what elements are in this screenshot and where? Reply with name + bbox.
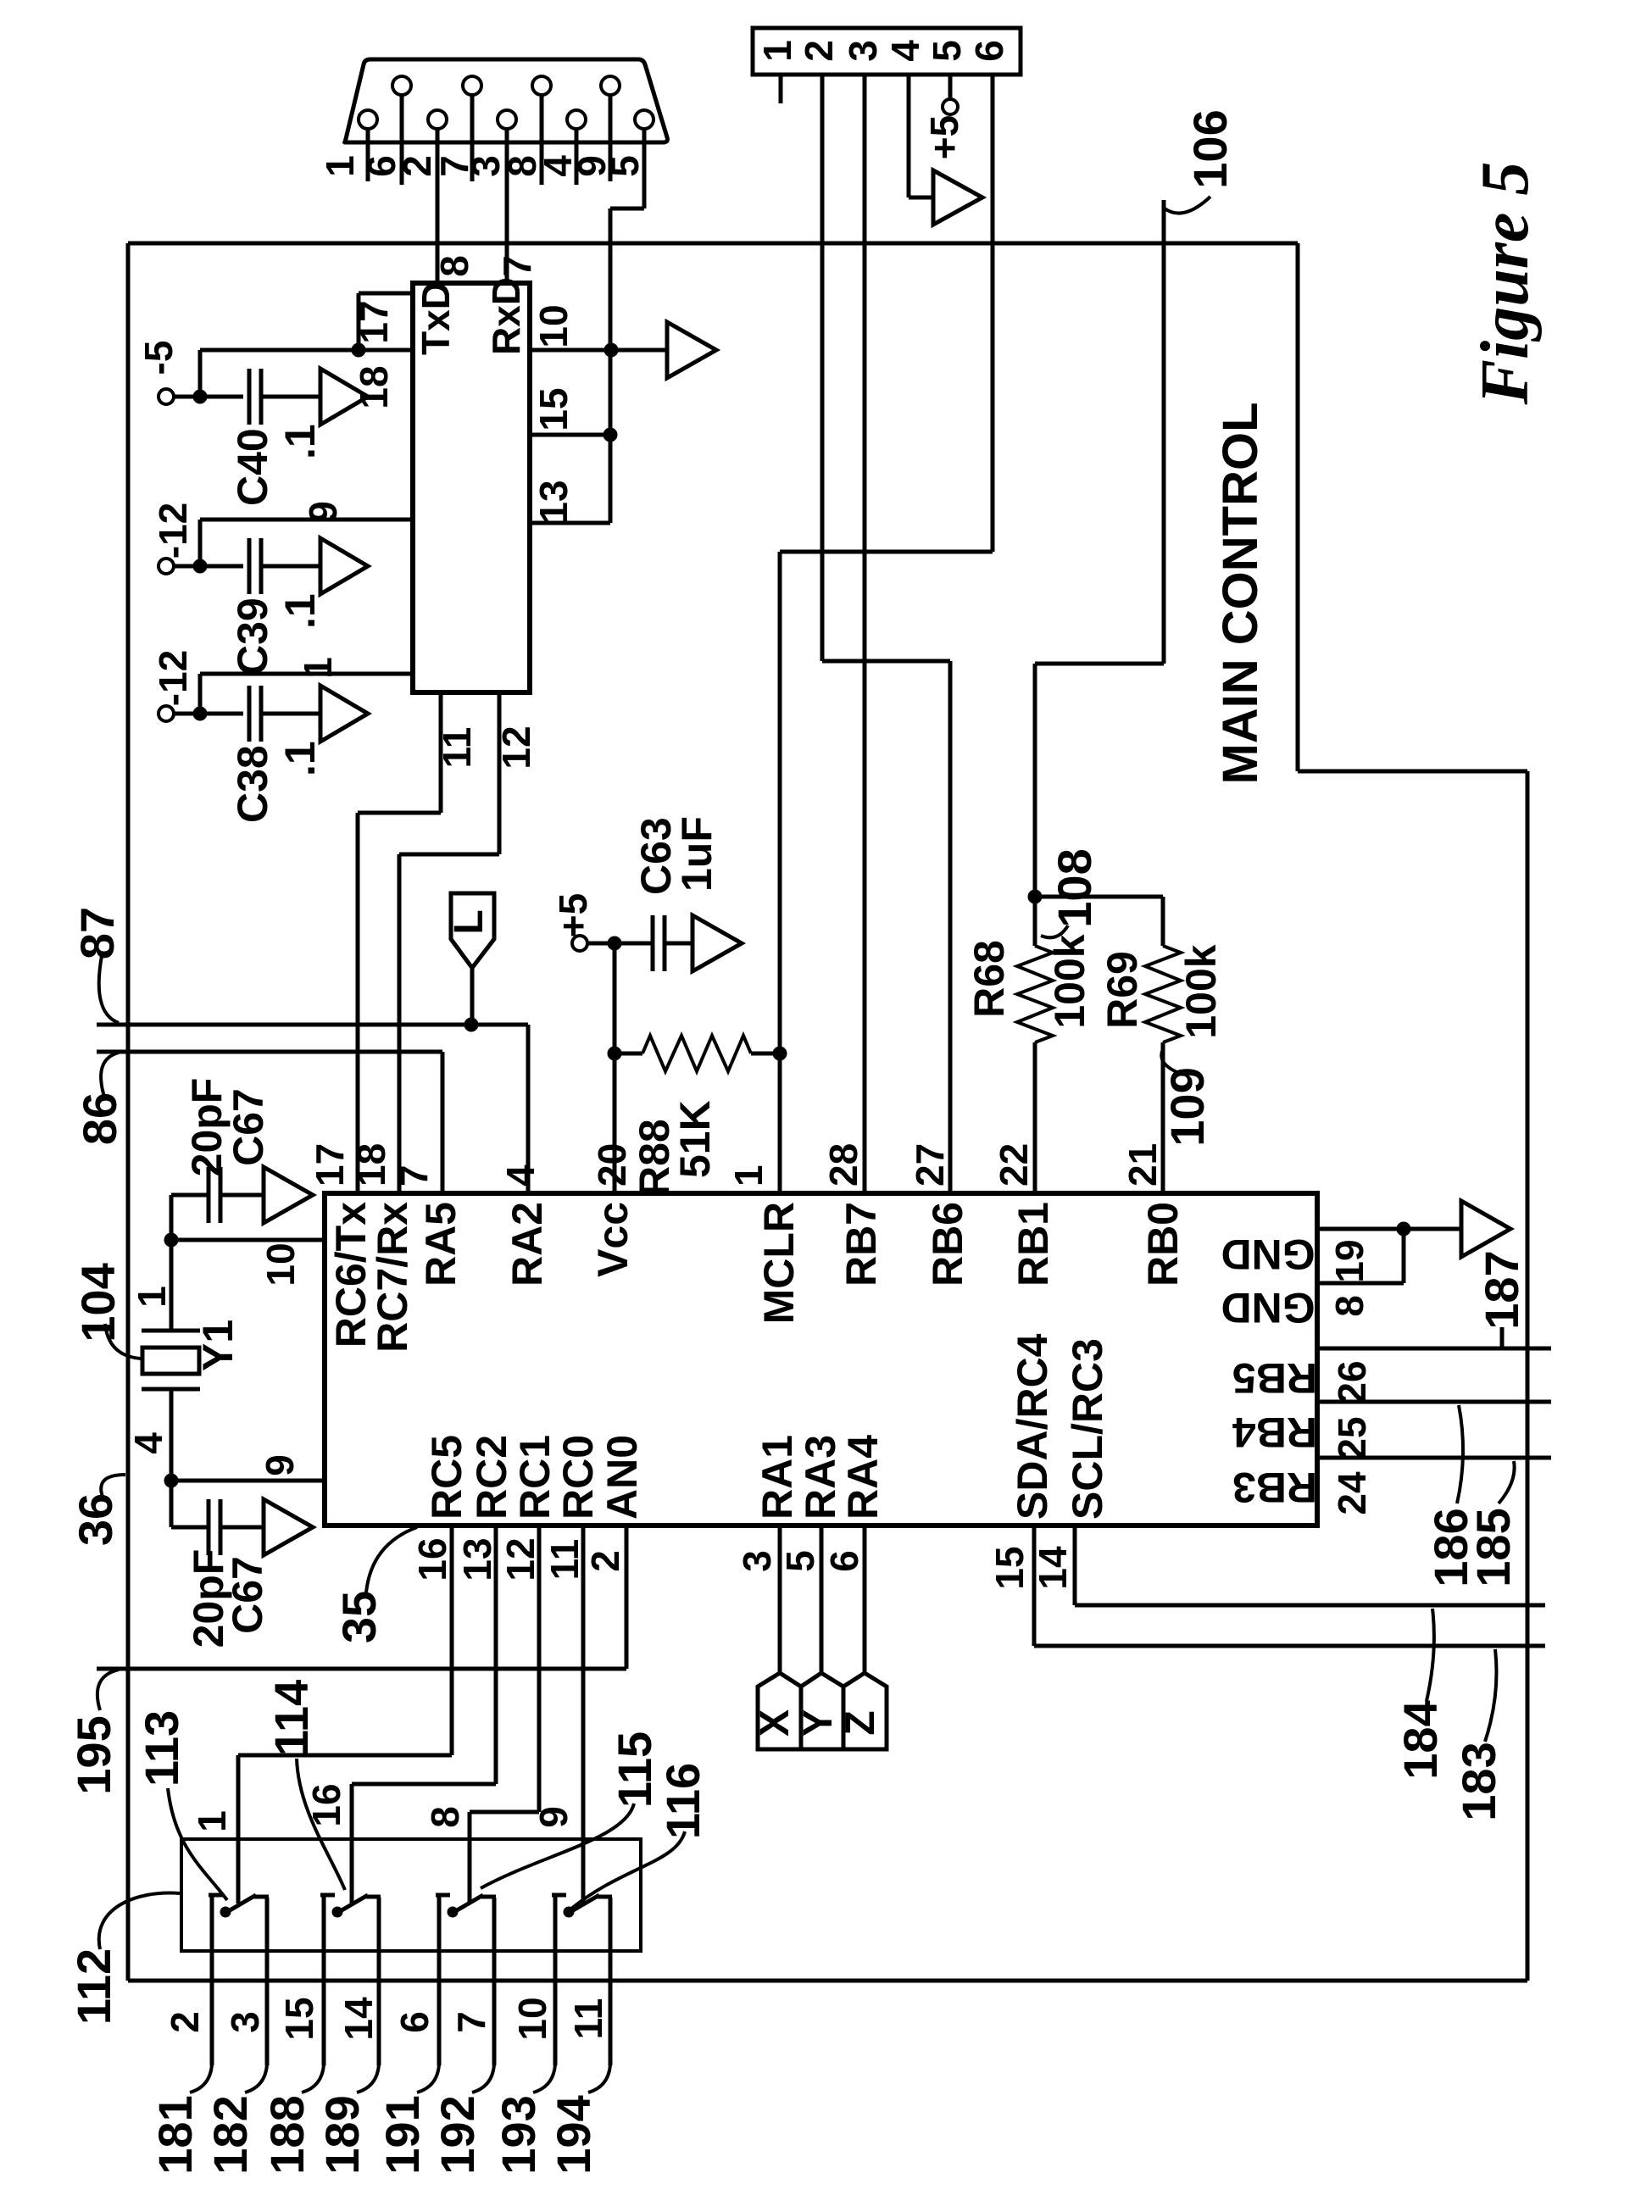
wire RC0 pin11 to SW4 bbox=[581, 1526, 586, 1904]
svg-text:Figure 5: Figure 5 bbox=[1468, 162, 1543, 406]
svg-text:15: 15 bbox=[277, 1997, 321, 2040]
svg-text:14: 14 bbox=[1031, 1546, 1075, 1590]
svg-text:14: 14 bbox=[337, 1997, 381, 2041]
svg-text:35: 35 bbox=[332, 1591, 386, 1643]
ground triangle U1 bbox=[1461, 1201, 1510, 1257]
ground triangle C40 bbox=[320, 369, 368, 425]
resistor R68 bbox=[1017, 946, 1053, 1042]
leader 106 bbox=[1165, 197, 1210, 214]
wire SDA pin15 net 183 bbox=[1032, 1526, 1037, 1646]
svg-text:RB5: RB5 bbox=[1232, 1354, 1317, 1402]
wire P1 pin3 to U2 RxD pin7 bbox=[505, 129, 509, 283]
svg-text:5: 5 bbox=[925, 40, 969, 62]
svg-text:1: 1 bbox=[190, 1810, 234, 1832]
svg-text:.1: .1 bbox=[276, 593, 324, 629]
svg-text:13: 13 bbox=[455, 1537, 499, 1581]
svg-text:MCLR: MCLR bbox=[755, 1202, 803, 1324]
wire P2 pin3 to RB7 bbox=[863, 75, 867, 1193]
wire node 87 to RA2 bbox=[97, 1023, 528, 1027]
svg-text:51K: 51K bbox=[671, 1100, 719, 1178]
leader 184 bbox=[1427, 1609, 1434, 1701]
switch S2 bbox=[320, 1893, 335, 1898]
svg-text:1: 1 bbox=[726, 1164, 770, 1187]
svg-text:181: 181 bbox=[148, 2095, 202, 2174]
svg-text:26: 26 bbox=[1330, 1360, 1374, 1403]
svg-text:6: 6 bbox=[822, 1550, 866, 1572]
svg-text:184: 184 bbox=[1393, 1700, 1447, 1779]
svg-text:RA1: RA1 bbox=[754, 1435, 801, 1520]
ground triangle C67 upper bbox=[264, 1167, 313, 1223]
junction dot GND bbox=[1397, 1222, 1410, 1236]
svg-text:RB0: RB0 bbox=[1139, 1202, 1187, 1287]
svg-text:1: 1 bbox=[755, 40, 799, 62]
svg-text:3: 3 bbox=[223, 2011, 267, 2033]
svg-text:7: 7 bbox=[392, 1164, 436, 1187]
svg-text:195: 195 bbox=[67, 1715, 120, 1794]
wire RB4 pin25 net 186 bbox=[1317, 1400, 1551, 1404]
wire P1 pin9 stub bbox=[609, 95, 613, 181]
wire P1 pin8 stub bbox=[540, 95, 544, 185]
svg-text:187: 187 bbox=[1475, 1250, 1528, 1329]
junction dot C38 node bbox=[193, 707, 207, 720]
MCU U1 box bbox=[325, 1193, 1317, 1526]
svg-text:9: 9 bbox=[301, 501, 345, 523]
leader 191 bbox=[417, 2065, 439, 2093]
wire AN0 pin2 net 195 bbox=[625, 1526, 629, 1669]
ground triangle C63 bbox=[693, 915, 742, 971]
capacitor C39 bbox=[248, 538, 252, 594]
leader 104 bbox=[105, 1324, 141, 1359]
svg-text:11: 11 bbox=[435, 727, 479, 769]
junction dot 108 bbox=[1028, 890, 1042, 903]
svg-text:100k: 100k bbox=[1177, 944, 1225, 1038]
svg-text:115: 115 bbox=[608, 1731, 661, 1808]
wire R69 to RB0 bbox=[1161, 1042, 1165, 1193]
capacitor C67 upper bbox=[170, 1195, 174, 1240]
svg-text:5: 5 bbox=[778, 1550, 822, 1572]
wire P1 pin1 stub bbox=[366, 129, 370, 181]
leader 183 bbox=[1485, 1649, 1497, 1742]
wire +5 node bbox=[587, 942, 652, 946]
svg-text:18: 18 bbox=[349, 1143, 393, 1187]
wire node 106 bbox=[1162, 200, 1166, 664]
svg-text:2: 2 bbox=[163, 2011, 207, 2033]
leader 194 bbox=[588, 2065, 610, 2093]
svg-text:RB1: RB1 bbox=[1010, 1202, 1057, 1287]
junction dot Vcc/R88 bbox=[608, 1047, 621, 1060]
svg-text:10: 10 bbox=[259, 1242, 303, 1286]
svg-text:RxD: RxD bbox=[484, 277, 528, 355]
svg-text:86: 86 bbox=[73, 1092, 126, 1145]
svg-text:6: 6 bbox=[967, 40, 1011, 62]
leader 35 bbox=[366, 1527, 417, 1592]
junction dot pin15 bbox=[604, 428, 617, 442]
junction dot crystal bottom bbox=[164, 1474, 178, 1487]
svg-text:1: 1 bbox=[318, 155, 362, 177]
svg-text:36: 36 bbox=[69, 1493, 122, 1546]
svg-text:106: 106 bbox=[1183, 109, 1237, 188]
wire GND pin8 bbox=[1317, 1281, 1404, 1286]
wire R68 to RB1 bbox=[1033, 1042, 1037, 1193]
junction dot R88/MCLR bbox=[773, 1047, 787, 1060]
wire RC2 pin13 to SW2 bbox=[494, 1526, 498, 1784]
svg-text:RC6/Tx: RC6/Tx bbox=[327, 1202, 375, 1348]
svg-text:7: 7 bbox=[449, 2011, 493, 2033]
connector P1 DB9 shell bbox=[345, 59, 668, 142]
svg-text:24: 24 bbox=[1330, 1471, 1374, 1515]
U2 pin1 stub bbox=[198, 674, 203, 714]
leader 189 bbox=[357, 2065, 379, 2093]
wire to R69 bbox=[1035, 895, 1163, 899]
svg-text:R68: R68 bbox=[965, 940, 1013, 1018]
svg-text:X: X bbox=[753, 1709, 798, 1737]
svg-text:RC7/Rx: RC7/Rx bbox=[369, 1202, 416, 1353]
svg-text:GND: GND bbox=[1221, 1284, 1315, 1331]
wire R68 top lead bbox=[1033, 897, 1037, 946]
svg-text:RA2: RA2 bbox=[503, 1202, 551, 1287]
wire RC5 pin16 to SW1 bbox=[450, 1526, 454, 1755]
svg-text:183: 183 bbox=[1452, 1742, 1505, 1820]
svg-text:10: 10 bbox=[531, 304, 576, 347]
svg-text:SDA/RC4: SDA/RC4 bbox=[1009, 1333, 1056, 1520]
svg-text:.1: .1 bbox=[276, 741, 324, 776]
svg-text:3: 3 bbox=[841, 40, 885, 62]
svg-text:12: 12 bbox=[494, 725, 538, 769]
leader 87 bbox=[99, 956, 119, 1023]
svg-text:194: 194 bbox=[547, 2095, 600, 2174]
svg-text:21: 21 bbox=[1121, 1143, 1165, 1187]
wire U2 pin15 bbox=[530, 433, 610, 437]
svg-text:9: 9 bbox=[531, 1806, 576, 1828]
svg-text:-12: -12 bbox=[151, 503, 195, 559]
svg-text:15: 15 bbox=[987, 1546, 1032, 1589]
svg-text:17: 17 bbox=[308, 1143, 352, 1187]
tag X bbox=[758, 1673, 801, 1749]
svg-text:L: L bbox=[447, 909, 492, 934]
svg-text:1uF: 1uF bbox=[673, 816, 720, 892]
svg-text:114: 114 bbox=[264, 1680, 318, 1756]
wire P1 pin2 to U2 TxD pin8 bbox=[436, 129, 440, 283]
svg-text:15: 15 bbox=[531, 387, 576, 431]
wire RA3 pin5 bbox=[820, 1526, 824, 1673]
connector P2 box bbox=[753, 28, 1021, 75]
svg-text:188: 188 bbox=[260, 2095, 314, 2174]
svg-text:2: 2 bbox=[797, 40, 841, 62]
leader 192 bbox=[472, 2065, 494, 2093]
svg-text:GND: GND bbox=[1221, 1231, 1315, 1278]
svg-text:RC2: RC2 bbox=[468, 1435, 515, 1520]
switch block 112 box bbox=[181, 1839, 641, 1951]
svg-text:RC5: RC5 bbox=[423, 1435, 470, 1520]
U2 pins 17 18 tie bbox=[359, 292, 413, 296]
svg-text:C67: C67 bbox=[224, 1556, 271, 1634]
wire RB3 pin24 net 185 bbox=[1317, 1456, 1551, 1460]
capacitor C40 bbox=[248, 369, 252, 425]
terminal -12 (C38) bbox=[159, 706, 174, 721]
junction dot crystal top bbox=[164, 1233, 178, 1247]
svg-text:8: 8 bbox=[423, 1806, 467, 1828]
wire RA4 pin6 bbox=[863, 1526, 867, 1673]
svg-text:RA5: RA5 bbox=[417, 1202, 464, 1287]
svg-text:100k: 100k bbox=[1046, 934, 1093, 1028]
wire SCL pin14 net 184 bbox=[1073, 1526, 1077, 1605]
connector P1 pin circles row upper bbox=[392, 76, 411, 95]
ground triangle C39 bbox=[320, 538, 368, 594]
svg-text:6: 6 bbox=[392, 2011, 437, 2033]
svg-text:RB7: RB7 bbox=[837, 1202, 885, 1287]
tag L bbox=[451, 893, 494, 968]
tag Y bbox=[801, 1673, 843, 1749]
svg-text:.1: .1 bbox=[276, 424, 324, 459]
svg-text:10: 10 bbox=[510, 1997, 554, 2040]
svg-text:+5: +5 bbox=[922, 115, 966, 159]
terminal -12 (C39) bbox=[159, 559, 174, 574]
svg-text:SCL/RC3: SCL/RC3 bbox=[1064, 1338, 1111, 1520]
leader 188 bbox=[302, 2065, 324, 2093]
wire C39 node bbox=[174, 564, 243, 569]
U1 pin10 stub bbox=[171, 1238, 325, 1242]
junction dot -5 node bbox=[193, 390, 207, 403]
leader 116 bbox=[571, 1831, 685, 1909]
svg-text:4: 4 bbox=[883, 40, 927, 62]
svg-text:193: 193 bbox=[492, 2095, 545, 2174]
svg-text:RA3: RA3 bbox=[797, 1435, 844, 1520]
svg-text:3: 3 bbox=[735, 1550, 779, 1572]
U1 pin9 stub bbox=[171, 1479, 325, 1483]
svg-text:RB6: RB6 bbox=[924, 1202, 971, 1287]
svg-text:17: 17 bbox=[352, 300, 396, 343]
wire U2 pin11 to RC6/Tx bbox=[439, 692, 443, 813]
capacitor C38 bbox=[248, 686, 252, 742]
power +5 terminal at P2 pin5 bbox=[948, 75, 953, 100]
svg-text:8: 8 bbox=[432, 255, 476, 277]
svg-text:13: 13 bbox=[531, 480, 576, 523]
svg-text:1: 1 bbox=[130, 1286, 174, 1308]
ground triangle C38 bbox=[320, 686, 368, 742]
wire P2 pin2 to RB6 bbox=[820, 75, 825, 661]
svg-text:-12: -12 bbox=[151, 650, 195, 706]
leader 112 bbox=[99, 1893, 180, 1949]
svg-text:27: 27 bbox=[908, 1143, 952, 1187]
leader 193 bbox=[533, 2065, 555, 2093]
wire P2 pin4 to ground bbox=[907, 75, 911, 197]
svg-text:12: 12 bbox=[498, 1537, 542, 1581]
svg-text:20pF: 20pF bbox=[183, 1078, 231, 1177]
svg-text:+5: +5 bbox=[551, 893, 595, 937]
svg-text:TxD: TxD bbox=[414, 281, 458, 355]
leader 36 bbox=[101, 1475, 125, 1497]
svg-text:16: 16 bbox=[410, 1537, 454, 1581]
svg-text:8: 8 bbox=[1327, 1295, 1371, 1317]
switch S4 bbox=[552, 1893, 566, 1898]
svg-text:28: 28 bbox=[821, 1143, 865, 1187]
svg-text:Z: Z bbox=[838, 1710, 883, 1735]
svg-text:104: 104 bbox=[71, 1263, 125, 1342]
wire RB5 pin26 net 187 bbox=[1317, 1347, 1551, 1351]
svg-text:25: 25 bbox=[1330, 1416, 1374, 1459]
svg-text:11: 11 bbox=[542, 1539, 587, 1581]
svg-text:109: 109 bbox=[1160, 1067, 1214, 1146]
leader 86 bbox=[101, 1053, 119, 1097]
svg-text:-5: -5 bbox=[136, 341, 181, 375]
svg-text:192: 192 bbox=[431, 2095, 484, 2174]
RS232 driver U2 box bbox=[413, 283, 530, 692]
crystal Y1 bbox=[170, 1240, 174, 1330]
leader 109 bbox=[1161, 1048, 1183, 1075]
wire P1 pin4 stub bbox=[575, 129, 579, 185]
wire U2 pin10 bbox=[530, 348, 667, 353]
ground triangle at P2 pin4 bbox=[933, 170, 982, 225]
svg-text:112: 112 bbox=[67, 1948, 120, 2025]
svg-text:108: 108 bbox=[1048, 848, 1101, 927]
svg-text:RB4: RB4 bbox=[1232, 1409, 1317, 1456]
svg-text:182: 182 bbox=[203, 2095, 257, 2174]
svg-text:RC1: RC1 bbox=[511, 1435, 559, 1520]
svg-text:22: 22 bbox=[992, 1143, 1036, 1187]
svg-text:191: 191 bbox=[375, 2095, 429, 2174]
leader 108 bbox=[1041, 925, 1068, 937]
ground triangle at U2 pin10 bbox=[667, 322, 716, 378]
wire C38 node bbox=[174, 712, 243, 716]
capacitor C67 lower bbox=[170, 1481, 174, 1527]
switch S1 bbox=[209, 1893, 223, 1898]
connector P1 pin circles row lower bbox=[359, 110, 377, 129]
svg-text:AN0: AN0 bbox=[598, 1435, 646, 1520]
border outer box bbox=[126, 243, 131, 1981]
terminal -5 bbox=[159, 389, 174, 404]
svg-text:113: 113 bbox=[135, 1710, 188, 1787]
junction dot pin10/P1-5 bbox=[604, 343, 618, 357]
svg-text:4: 4 bbox=[498, 1164, 542, 1187]
svg-text:C39: C39 bbox=[229, 597, 276, 675]
leader 113 bbox=[168, 1788, 227, 1900]
ground triangle C67 lower bbox=[264, 1499, 313, 1555]
leader 182 bbox=[245, 2065, 267, 2093]
svg-text:RC0: RC0 bbox=[554, 1435, 602, 1520]
svg-text:R69: R69 bbox=[1099, 951, 1146, 1029]
U2 pin9 stub bbox=[198, 520, 203, 566]
wire RA1 pin3 bbox=[778, 1526, 782, 1673]
junction dot C39 node bbox=[193, 559, 207, 573]
svg-text:C38: C38 bbox=[229, 745, 276, 823]
svg-text:7: 7 bbox=[495, 255, 539, 277]
wire P1 pin7 stub bbox=[470, 95, 475, 181]
wire U2 pin12 to RC7/Rx bbox=[498, 692, 502, 854]
svg-text:2: 2 bbox=[583, 1550, 627, 1572]
svg-text:RA4: RA4 bbox=[839, 1435, 887, 1520]
svg-text:1: 1 bbox=[296, 657, 340, 679]
svg-text:20: 20 bbox=[590, 1143, 634, 1187]
svg-text:Y1: Y1 bbox=[194, 1320, 242, 1371]
wire P1 pin6 stub bbox=[400, 95, 404, 185]
svg-text:C40: C40 bbox=[229, 428, 276, 506]
wire RC1 pin12 to SW3 bbox=[537, 1526, 542, 1812]
svg-text:19: 19 bbox=[1327, 1239, 1371, 1282]
junction dot +5/Vcc bbox=[608, 936, 621, 950]
wire P2 pin1 stub bbox=[779, 75, 783, 103]
resistor R88 bbox=[615, 1052, 642, 1056]
capacitor C63 bbox=[651, 915, 655, 971]
leader 186 bbox=[1457, 1405, 1463, 1503]
svg-text:189: 189 bbox=[315, 2095, 369, 2174]
wire P2 pin6 to MCLR bbox=[991, 75, 995, 552]
svg-text:9: 9 bbox=[258, 1454, 302, 1476]
svg-text:MAIN CONTROL: MAIN CONTROL bbox=[1213, 402, 1268, 784]
svg-text:Vcc: Vcc bbox=[589, 1202, 637, 1277]
svg-text:RB3: RB3 bbox=[1232, 1464, 1317, 1511]
wire P1 pin5 jog bbox=[642, 129, 647, 208]
svg-text:11: 11 bbox=[566, 1998, 610, 2040]
leader 181 bbox=[190, 2065, 212, 2093]
wire GND pin19 bbox=[1317, 1227, 1461, 1231]
svg-text:116: 116 bbox=[656, 1763, 709, 1839]
leader 195 bbox=[97, 1670, 119, 1710]
resistor R69 bbox=[1145, 946, 1181, 1042]
junction dot U2 pin18 bbox=[352, 343, 365, 357]
svg-text:C67: C67 bbox=[225, 1088, 272, 1166]
wire -5 node bbox=[174, 395, 243, 399]
leader 115 bbox=[481, 1804, 634, 1888]
wire Vcc pin20 bbox=[613, 943, 617, 1193]
leader 114 bbox=[297, 1759, 345, 1890]
tag Z bbox=[843, 1673, 887, 1749]
switch S3 bbox=[436, 1893, 450, 1898]
svg-text:4: 4 bbox=[126, 1432, 170, 1454]
junction dot L-tag bbox=[464, 1018, 478, 1031]
svg-text:185: 185 bbox=[1466, 1508, 1520, 1587]
wire U2 pin13 bbox=[530, 521, 610, 525]
wire node 86 to RA5 bbox=[97, 1050, 442, 1054]
svg-text:Y: Y bbox=[796, 1709, 841, 1737]
leader 185 bbox=[1499, 1461, 1515, 1503]
power +5 terminal bbox=[572, 936, 587, 951]
svg-text:87: 87 bbox=[70, 907, 124, 959]
